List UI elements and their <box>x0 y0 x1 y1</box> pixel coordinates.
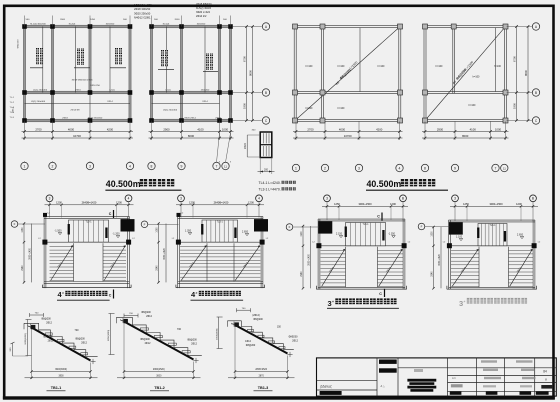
svg-text:2870: 2870 <box>259 375 265 377</box>
svg-text:h=100: h=100 <box>338 65 345 68</box>
svg-text:KL1(2): KL1(2) <box>163 23 170 25</box>
stair plan P4 left dimension chain <box>431 226 441 290</box>
svg-text:TL3-1: TL3-1 <box>85 222 92 224</box>
svg-text:2900: 2900 <box>163 127 170 131</box>
svg-text:300x500: 300x500 <box>106 23 115 25</box>
stair plan P1 corner column <box>121 219 135 231</box>
svg-text:h=100: h=100 <box>378 65 385 68</box>
beam plan grid extension lines <box>25 16 231 163</box>
svg-text:-1.200: -1.200 <box>112 233 120 236</box>
svg-text:TL3-1: TL3-1 <box>217 222 224 224</box>
svg-text:3: 3 <box>328 299 332 308</box>
svg-text:700: 700 <box>75 330 80 332</box>
svg-text:8: 8 <box>545 378 547 382</box>
stair plan P1 bottom section mark C <box>109 290 114 299</box>
svg-text:Δ δ: Δ δ <box>452 376 456 380</box>
svg-text:L5(1) 200x300: L5(1) 200x300 <box>31 101 46 103</box>
svg-text:3060+1420: 3060+1420 <box>308 253 310 265</box>
stair plan P4 lower flight hatch <box>451 247 533 287</box>
svg-text:TB1-1: TB1-1 <box>58 262 64 269</box>
svg-text:Δ △: Δ △ <box>381 384 386 388</box>
stair plan P1 lower flight hatch <box>50 243 127 281</box>
svg-text:1200: 1200 <box>390 202 396 206</box>
stair plan P2 left dimension chain <box>156 222 166 283</box>
stair plan P1 flight arrows <box>51 245 126 280</box>
misc small dim left of TB1-1 <box>10 342 28 356</box>
svg-text:C: C <box>377 214 380 218</box>
svg-text:4200: 4200 <box>107 127 114 131</box>
svg-text:N4Φ12 G2Φ1: N4Φ12 G2Φ1 <box>134 16 151 20</box>
svg-text:11: 11 <box>224 164 227 168</box>
svg-text:1250: 1250 <box>463 202 469 206</box>
svg-text:Φ8@200: Φ8@200 <box>187 339 197 342</box>
svg-text:2Φ14 Φ8: 2Φ14 Φ8 <box>71 109 81 112</box>
svg-text:700: 700 <box>35 313 39 315</box>
stair plan P4 flight arrows <box>452 249 532 286</box>
svg-text:4000: 4000 <box>68 127 75 131</box>
svg-text:h=100: h=100 <box>473 76 480 79</box>
svg-text:1900: 1900 <box>512 103 516 109</box>
slab plan - outline section B <box>424 26 507 122</box>
svg-text:2000: 2000 <box>60 19 66 21</box>
slab plan section B columns <box>423 24 509 123</box>
svg-text:2700: 2700 <box>35 127 42 131</box>
title block stamp bars column <box>379 360 397 388</box>
stair plan P1 section mark C <box>109 210 114 218</box>
svg-text:TB1-1: TB1-1 <box>190 262 196 269</box>
svg-text:3: 3 <box>180 197 182 201</box>
beam plan right side dims and A B C bubbles <box>233 23 270 124</box>
svg-text:2700: 2700 <box>307 127 314 131</box>
svg-text:-1.500: -1.500 <box>54 230 62 233</box>
stair plan P1 upper flight treads <box>68 220 109 242</box>
slab plan dimensions bottom <box>293 122 509 141</box>
svg-text:2Φ18: 2Φ18 <box>215 116 221 119</box>
svg-text:1: 1 <box>24 164 26 168</box>
svg-text:L2: L2 <box>172 238 175 240</box>
svg-text:3Φ18 Φ8@200 2Φ16: 3Φ18 Φ8@200 2Φ16 <box>72 79 94 82</box>
stair section TB1-2 top small dim <box>124 313 138 317</box>
stair plan P4 upper flight treads <box>477 224 507 246</box>
stair section TB1-1 sloped flight beam <box>28 324 96 364</box>
svg-text:10700: 10700 <box>344 134 352 138</box>
svg-text:4100: 4100 <box>197 127 204 131</box>
svg-text:700: 700 <box>177 329 182 331</box>
svg-text:2.150: 2.150 <box>336 233 343 236</box>
svg-text:2940: 2940 <box>156 265 158 271</box>
stair plan P1 wall beam marks <box>42 240 47 245</box>
svg-text:8600: 8600 <box>248 70 252 76</box>
svg-text:L1(1) 250x400: L1(1) 250x400 <box>33 89 48 91</box>
svg-text:3Φ20 2Φ14: 3Φ20 2Φ14 <box>184 116 196 119</box>
svg-text:1650(1600): 1650(1600) <box>216 328 218 339</box>
stair section TB1-1 rebar labels <box>41 317 87 344</box>
svg-text:Φ8@200: Φ8@200 <box>75 338 85 341</box>
svg-text:900: 900 <box>10 347 12 351</box>
stair plan P3 lower flight hatch <box>321 247 404 287</box>
svg-text:TL-1: TL-1 <box>10 97 15 99</box>
svg-text:2.650: 2.650 <box>242 231 249 234</box>
svg-text:500: 500 <box>154 19 158 21</box>
svg-text:F: F <box>289 225 291 229</box>
svg-text:A: A <box>265 25 268 29</box>
svg-text:3060+1420: 3060+1420 <box>29 247 31 259</box>
svg-text:2000: 2000 <box>175 19 181 21</box>
svg-text:40.500m: 40.500m <box>106 179 141 189</box>
svg-text:2: 2 <box>324 166 326 170</box>
svg-text:h=100: h=100 <box>469 104 476 107</box>
svg-text:2640B=1420: 2640B=1420 <box>214 201 229 205</box>
svg-text:9: 9 <box>454 166 456 170</box>
stair section TB1-3 sloped flight beam <box>231 321 293 357</box>
stair plan P3 wall beam marks <box>316 243 321 248</box>
svg-text:F: F <box>421 225 423 229</box>
stair plan P2 flight arrows <box>181 245 260 280</box>
svg-text:TL3-1: TL3-1 <box>489 225 496 227</box>
title block left signature cell <box>320 385 342 395</box>
svg-text:C: C <box>109 212 112 216</box>
title block right grid small texts <box>451 360 552 388</box>
svg-text:2Φ12: 2Φ12 <box>191 343 197 346</box>
svg-text:C: C <box>109 294 112 298</box>
svg-text:250x400: 250x400 <box>201 89 210 91</box>
stair plan P3 left dimension chain <box>301 225 311 290</box>
svg-text:2Φ14: 2Φ14 <box>202 100 208 103</box>
svg-text:3060+1420: 3060+1420 <box>439 253 441 265</box>
svg-text:L2: L2 <box>47 213 50 215</box>
svg-text:Φ8@200: Φ8@200 <box>140 338 150 341</box>
svg-text:1200: 1200 <box>189 201 195 205</box>
svg-text:F: F <box>144 223 146 227</box>
stair section TB1-3 step outline <box>228 321 294 350</box>
svg-text:8: 8 <box>424 166 426 170</box>
svg-text:C: C <box>265 119 268 123</box>
svg-text:#: # <box>464 299 466 303</box>
stair plan P3 bottom section mark C <box>379 289 384 297</box>
svg-text:8: 8 <box>151 164 153 168</box>
svg-text:B: B <box>265 91 267 95</box>
svg-text:h=100: h=100 <box>306 65 313 68</box>
svg-text:3000+1500: 3000+1500 <box>358 202 372 206</box>
stair plan P3 section mark C <box>377 213 382 221</box>
svg-text:Φ8@200: Φ8@200 <box>43 336 53 339</box>
stair section TB1-2 step outline <box>117 317 202 355</box>
svg-text:#: # <box>62 291 64 295</box>
stair plan P4 corner column <box>449 222 463 234</box>
svg-text:2Φ14: 2Φ14 <box>12 107 15 113</box>
svg-text:3Φ20 250x500: 3Φ20 250x500 <box>88 116 103 119</box>
svg-text:3: 3 <box>358 166 360 170</box>
slab plan section A labels <box>306 65 385 110</box>
svg-text:4100: 4100 <box>470 127 477 131</box>
svg-text:1650(1600): 1650(1600) <box>108 330 110 341</box>
svg-text:700: 700 <box>242 308 246 310</box>
svg-text:3600(3060): 3600(3060) <box>55 369 67 371</box>
svg-text:1900: 1900 <box>431 231 433 237</box>
svg-text:700: 700 <box>129 313 133 315</box>
stair section TB1-1 bottom dims <box>25 330 98 380</box>
svg-text:3: 3 <box>454 197 456 201</box>
svg-text:2Φ12: 2Φ12 <box>48 340 54 343</box>
svg-text:1: 1 <box>295 166 297 170</box>
svg-text:L2: L2 <box>266 238 269 240</box>
svg-text:B: B <box>402 197 404 201</box>
stair plan P4 title <box>459 298 527 308</box>
svg-text:F: F <box>14 222 16 226</box>
title block bottom row black bars <box>450 392 549 395</box>
svg-text:500: 500 <box>26 19 30 21</box>
stair plan P4 walls <box>447 220 537 289</box>
svg-text:2940: 2940 <box>301 271 303 277</box>
stair plan P4 left axis bubble F <box>418 223 449 230</box>
svg-text:TL-2: TL-2 <box>10 102 15 104</box>
slab plan 40.500m - outline section A <box>294 26 401 122</box>
svg-text:2Φ14: 2Φ14 <box>107 100 113 103</box>
svg-text:1.100: 1.100 <box>456 236 463 239</box>
svg-text:L2: L2 <box>408 242 411 244</box>
beam plan title 40.500m <box>105 179 181 190</box>
stair plan P3 flight arrows <box>322 249 403 286</box>
svg-text:KL5(2) 300x5: KL5(2) 300x5 <box>196 7 212 10</box>
svg-text:500: 500 <box>123 19 127 21</box>
svg-text:1650(1600): 1650(1600) <box>25 333 27 344</box>
stair plan P4 top axis bubbles and dims <box>450 195 538 221</box>
svg-text:200: 200 <box>264 168 269 171</box>
svg-text:L2: L2 <box>132 238 135 240</box>
stair plan P3 walls <box>316 219 406 289</box>
svg-text:1900: 1900 <box>242 103 246 109</box>
svg-text:#: # <box>196 291 198 295</box>
svg-text:2940: 2940 <box>431 271 433 277</box>
stair section TB1-1 top small dim <box>30 313 44 317</box>
beam plan secondary beams <box>25 27 220 104</box>
svg-text:3: 3 <box>89 164 91 168</box>
svg-text:L2: L2 <box>38 238 41 240</box>
svg-text:C: C <box>535 119 538 123</box>
svg-text:4: 4 <box>399 166 401 170</box>
svg-text:L5(1) 200x300: L5(1) 200x300 <box>163 110 178 112</box>
svg-text:2.650: 2.650 <box>517 234 524 237</box>
svg-text:1060: 1060 <box>22 227 24 233</box>
svg-text:3Φ20 L=424: 3Φ20 L=424 <box>196 11 210 14</box>
TL legend text <box>259 181 296 192</box>
stair section TB1-2 rebar labels <box>140 311 197 345</box>
stair plan P4 wall beam marks <box>447 243 452 248</box>
svg-text:10700: 10700 <box>73 134 81 138</box>
stair section TB1-1 step outline <box>24 323 98 356</box>
svg-text:C: C <box>379 292 382 296</box>
svg-text:A: A <box>535 25 538 29</box>
svg-text:500: 500 <box>223 19 227 21</box>
svg-text:1200: 1200 <box>248 201 254 205</box>
stair plan P3 upper flight treads <box>345 223 386 246</box>
svg-text:4: 4 <box>129 164 131 168</box>
svg-text:KL2(2): KL2(2) <box>69 23 76 25</box>
svg-text:Φ8@200: Φ8@200 <box>253 318 263 321</box>
svg-text:2Φ12: 2Φ12 <box>46 321 52 324</box>
left margin small notes <box>10 39 20 119</box>
svg-text:1Φ12: 1Φ12 <box>245 340 251 343</box>
svg-text:TB1-1: TB1-1 <box>243 262 249 269</box>
svg-text:h=100: h=100 <box>436 65 443 68</box>
svg-text:2Φ12: 2Φ12 <box>146 315 152 318</box>
svg-text:11: 11 <box>503 166 506 170</box>
svg-text:7: 7 <box>495 166 497 170</box>
stair plan P2 wall beam marks <box>176 240 181 245</box>
svg-text:3000: 3000 <box>156 375 162 377</box>
svg-text:2Φ22: 2Φ22 <box>244 142 247 149</box>
slab plan section B diagonal with rebar note <box>425 27 506 121</box>
beam plan horizontal labels near beams <box>30 23 221 119</box>
svg-text:2900: 2900 <box>437 127 444 131</box>
beam plan 40.500m - grid beams <box>23 25 232 122</box>
svg-text:TB1-1: TB1-1 <box>111 262 117 269</box>
svg-text:TB1-1: TB1-1 <box>51 386 62 390</box>
stair plan P2 walls <box>176 217 265 289</box>
svg-text:1.350: 1.350 <box>185 230 192 233</box>
svg-text:3900: 3900 <box>58 375 64 377</box>
svg-text:4000: 4000 <box>339 127 346 131</box>
stair plan P3 corner column <box>318 221 332 233</box>
svg-text:B: B <box>535 91 537 95</box>
stair plan P3 top axis bubbles and dims <box>322 195 408 220</box>
stair plan P1 top axis bubbles and dims <box>45 195 134 218</box>
svg-text:L2: L2 <box>312 242 315 244</box>
svg-text:Φ8@200: Φ8@200 <box>141 311 151 314</box>
svg-text:Φ8Φ200: Φ8Φ200 <box>289 336 299 339</box>
svg-text:-1.350: -1.350 <box>388 233 396 236</box>
svg-text:2Φ12: 2Φ12 <box>81 342 87 345</box>
svg-text:1900: 1900 <box>301 231 303 237</box>
svg-text:4200: 4200 <box>376 127 383 131</box>
svg-text:h=100: h=100 <box>338 107 345 110</box>
svg-text:3060+1420: 3060+1420 <box>164 247 166 259</box>
svg-text:h=100: h=100 <box>306 107 313 110</box>
stair plan P2 title <box>191 290 244 300</box>
svg-text:Φ8@200: Φ8@200 <box>246 344 256 347</box>
svg-text:6700: 6700 <box>512 56 516 62</box>
svg-text:h=100: h=100 <box>494 65 501 68</box>
svg-text:2640B=1420: 2640B=1420 <box>82 201 97 205</box>
svg-text:L2: L2 <box>443 242 446 244</box>
stair section TB1-2 title <box>150 386 169 391</box>
stair section TB1-1 left height dim <box>25 320 31 356</box>
svg-text:2Φ12: 2Φ12 <box>145 342 151 345</box>
svg-text:2808=2520: 2808=2520 <box>255 369 267 371</box>
svg-text:2Φ14 2/2: 2Φ14 2/2 <box>196 15 207 18</box>
svg-text:6700: 6700 <box>242 56 246 62</box>
beam plan small dims above top beam <box>26 19 228 21</box>
svg-text:2Φ18 Φ8@20: 2Φ18 Φ8@20 <box>196 3 212 6</box>
svg-text:TL3-1: TL3-1 <box>362 224 369 226</box>
beam plan in-cell annotation blocks with leader lines <box>30 48 218 72</box>
svg-text:TL3-1 L=4470.: TL3-1 L=4470. <box>259 188 281 192</box>
stair plan P2 lower flight hatch <box>180 243 260 281</box>
svg-text:7: 7 <box>216 164 218 168</box>
beam plan dimension lines bottom <box>22 127 234 139</box>
svg-text:#: # <box>332 299 334 303</box>
svg-text:2Φ18: 2Φ18 <box>62 116 68 119</box>
stair plan P3 left axis bubble F <box>286 224 319 231</box>
svg-text:8600: 8600 <box>524 70 528 76</box>
svg-text:2: 2 <box>52 164 54 168</box>
svg-text:9: 9 <box>181 164 183 168</box>
svg-text:βΔετωζ: βΔετωζ <box>321 385 333 389</box>
svg-text:84: 84 <box>543 369 547 373</box>
svg-text:3: 3 <box>459 299 463 308</box>
svg-text:TB1-3: TB1-3 <box>258 386 269 390</box>
svg-text:L2(1): L2(1) <box>109 89 114 91</box>
svg-text:8000: 8000 <box>462 134 469 138</box>
svg-text:4: 4 <box>258 197 260 201</box>
svg-text:40.500m: 40.500m <box>367 179 402 189</box>
svg-text:1450: 1450 <box>90 19 96 21</box>
svg-text:B: B <box>532 197 534 201</box>
stair plan P2 corner column <box>254 219 268 231</box>
title block drawing name black bars <box>407 369 436 392</box>
svg-text:2Φ16: 2Φ16 <box>75 88 81 91</box>
svg-text:3: 3 <box>49 197 51 201</box>
svg-text:L2: L2 <box>538 242 541 244</box>
slab plan section A diagonal with rebar note <box>295 27 400 121</box>
svg-text:TB1-2: TB1-2 <box>154 386 165 390</box>
svg-text:L2: L2 <box>181 213 184 215</box>
svg-text:1060: 1060 <box>156 227 158 233</box>
stair section TB1-1 title <box>47 386 66 391</box>
stair section TB1-2 left height dim <box>108 314 114 355</box>
svg-text:KL1(2) 300x500: KL1(2) 300x500 <box>30 23 46 25</box>
svg-text:1Φ8@2 L=200: 1Φ8@2 L=200 <box>134 3 152 7</box>
stair plan P1 left dimension chain <box>22 222 32 283</box>
slab plan axis bubbles <box>292 164 508 171</box>
stair section TB1-2 sloped flight beam <box>120 318 199 363</box>
svg-text:2Φ12: 2Φ12 <box>292 340 298 343</box>
notes cluster above beam plan <box>134 3 212 20</box>
beam plan axis bubbles bottom <box>21 133 231 170</box>
svg-text:3000+1500: 3000+1500 <box>489 202 503 206</box>
stair plan P1 left axis bubble F <box>11 221 45 228</box>
TL beam section detail <box>244 130 275 175</box>
stair plan P2 upper flight treads <box>201 220 237 242</box>
stair section TB1-3 rebar labels <box>245 314 298 347</box>
svg-text:3: 3 <box>326 197 328 201</box>
title block outline <box>317 358 557 396</box>
svg-text:Φ8@200: Φ8@200 <box>17 39 20 49</box>
slab plan title 40.500m <box>366 179 448 190</box>
svg-text:300x500: 300x500 <box>197 23 206 25</box>
slab plan right dims and bubbles <box>507 23 540 124</box>
svg-text:2Φ16 250: 2Φ16 250 <box>90 84 100 87</box>
stair plan P1 title <box>57 290 110 300</box>
slab plan section B labels <box>436 65 502 107</box>
stair section TB1-3 bottom dims <box>228 327 295 379</box>
svg-text:3Φ20 250x50: 3Φ20 250x50 <box>134 11 151 15</box>
svg-text:2940: 2940 <box>22 265 24 271</box>
stair section TB1-2 bottom dims <box>117 324 201 380</box>
stair plan P2 top axis bubbles and dims <box>176 195 264 218</box>
stair plan P3 title <box>327 298 399 308</box>
svg-text:150: 150 <box>277 326 282 328</box>
stair section TB1-3 left height dim <box>216 317 222 349</box>
svg-text:8000: 8000 <box>188 134 195 138</box>
stair plan P2 left axis bubble F <box>141 221 178 228</box>
stair plan P1 walls <box>42 217 131 289</box>
stair section TB1-3 title <box>254 386 273 391</box>
stair section TB1-3 top small dim <box>237 308 251 312</box>
svg-text:2Φ18 300x50: 2Φ18 300x50 <box>134 7 151 11</box>
svg-text:300: 300 <box>252 130 256 132</box>
svg-text:TL4-1 L=4240.: TL4-1 L=4240. <box>259 181 281 185</box>
